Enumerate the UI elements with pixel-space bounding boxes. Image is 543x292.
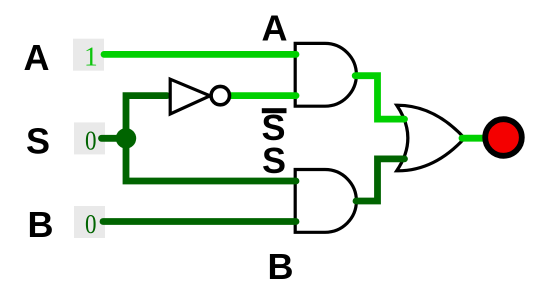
- svg-text:B: B: [28, 204, 54, 245]
- svg-text:S: S: [26, 120, 50, 161]
- svg-text:B: B: [268, 246, 294, 287]
- svg-text:A: A: [262, 7, 288, 48]
- svg-text:1: 1: [84, 40, 98, 71]
- svg-text:0: 0: [85, 208, 97, 239]
- svg-text:0: 0: [85, 125, 97, 156]
- svg-text:S: S: [262, 140, 286, 181]
- svg-text:A: A: [24, 37, 50, 78]
